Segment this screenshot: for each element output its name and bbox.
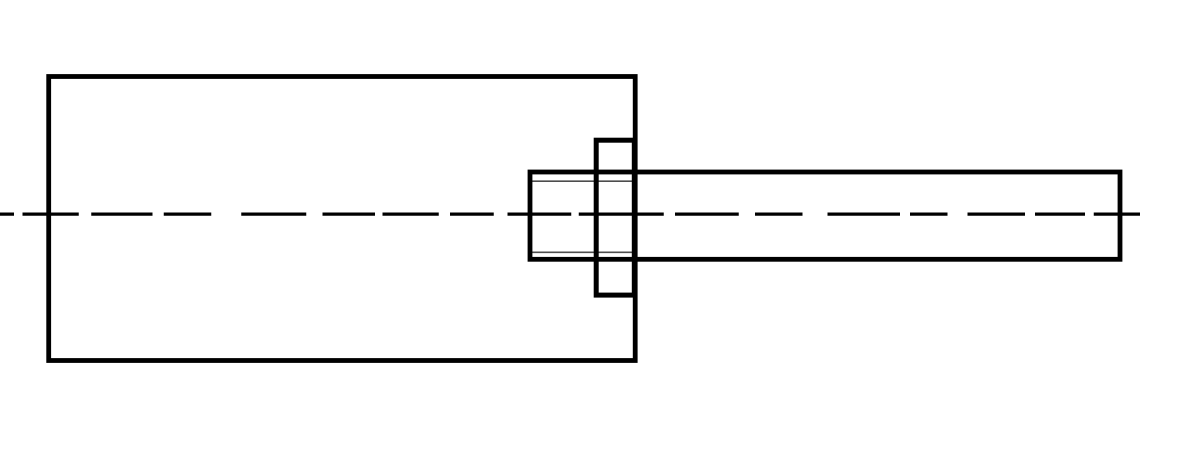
shaft rectangle xyxy=(530,172,1120,259)
thin line top (hidden shaft step, upper) xyxy=(530,180,636,182)
thin line bottom (hidden shaft step, lower) xyxy=(530,251,636,253)
housing rectangle xyxy=(49,77,636,361)
centerline (horizontal dash-dot axis) xyxy=(0,213,1140,216)
collar rectangle xyxy=(596,140,634,295)
